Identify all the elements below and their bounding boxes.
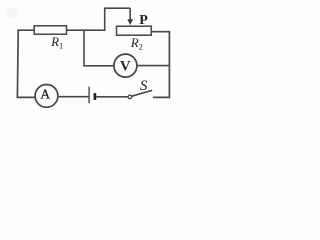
- wire ammeter to battery: [58, 96, 89, 98]
- svg-text:A: A: [40, 86, 50, 101]
- wire voltmeter right: [137, 65, 170, 67]
- faint scan smudge: [6, 8, 18, 18]
- wire switch fixed contact to corner: [153, 96, 170, 98]
- potentiometer R2: [117, 26, 152, 35]
- wire battery to switch: [96, 96, 128, 98]
- resistor R1: [34, 26, 66, 34]
- ammeter A: [35, 85, 58, 108]
- switch S lever: [132, 90, 153, 96]
- wiper arrow P shaft: [129, 8, 131, 20]
- battery long plate: [88, 87, 90, 104]
- wiper arrowhead: [127, 19, 133, 25]
- wire wiper riser: [105, 8, 131, 30]
- voltmeter U (V): [114, 54, 137, 77]
- circuit drawing group: [6, 8, 171, 108]
- wire right vertical rail: [168, 31, 170, 97]
- svg-text:V: V: [120, 59, 131, 75]
- wire bottom left segment: [17, 96, 36, 98]
- battery short thick plate: [94, 93, 97, 100]
- wire top horizontal: [17, 29, 105, 31]
- wire R2 right to rail: [152, 31, 170, 33]
- wire left vertical: [16, 30, 19, 97]
- wire voltmeter left riser: [84, 30, 114, 66]
- switch S pivot: [128, 95, 132, 99]
- svg-text:S: S: [140, 78, 148, 94]
